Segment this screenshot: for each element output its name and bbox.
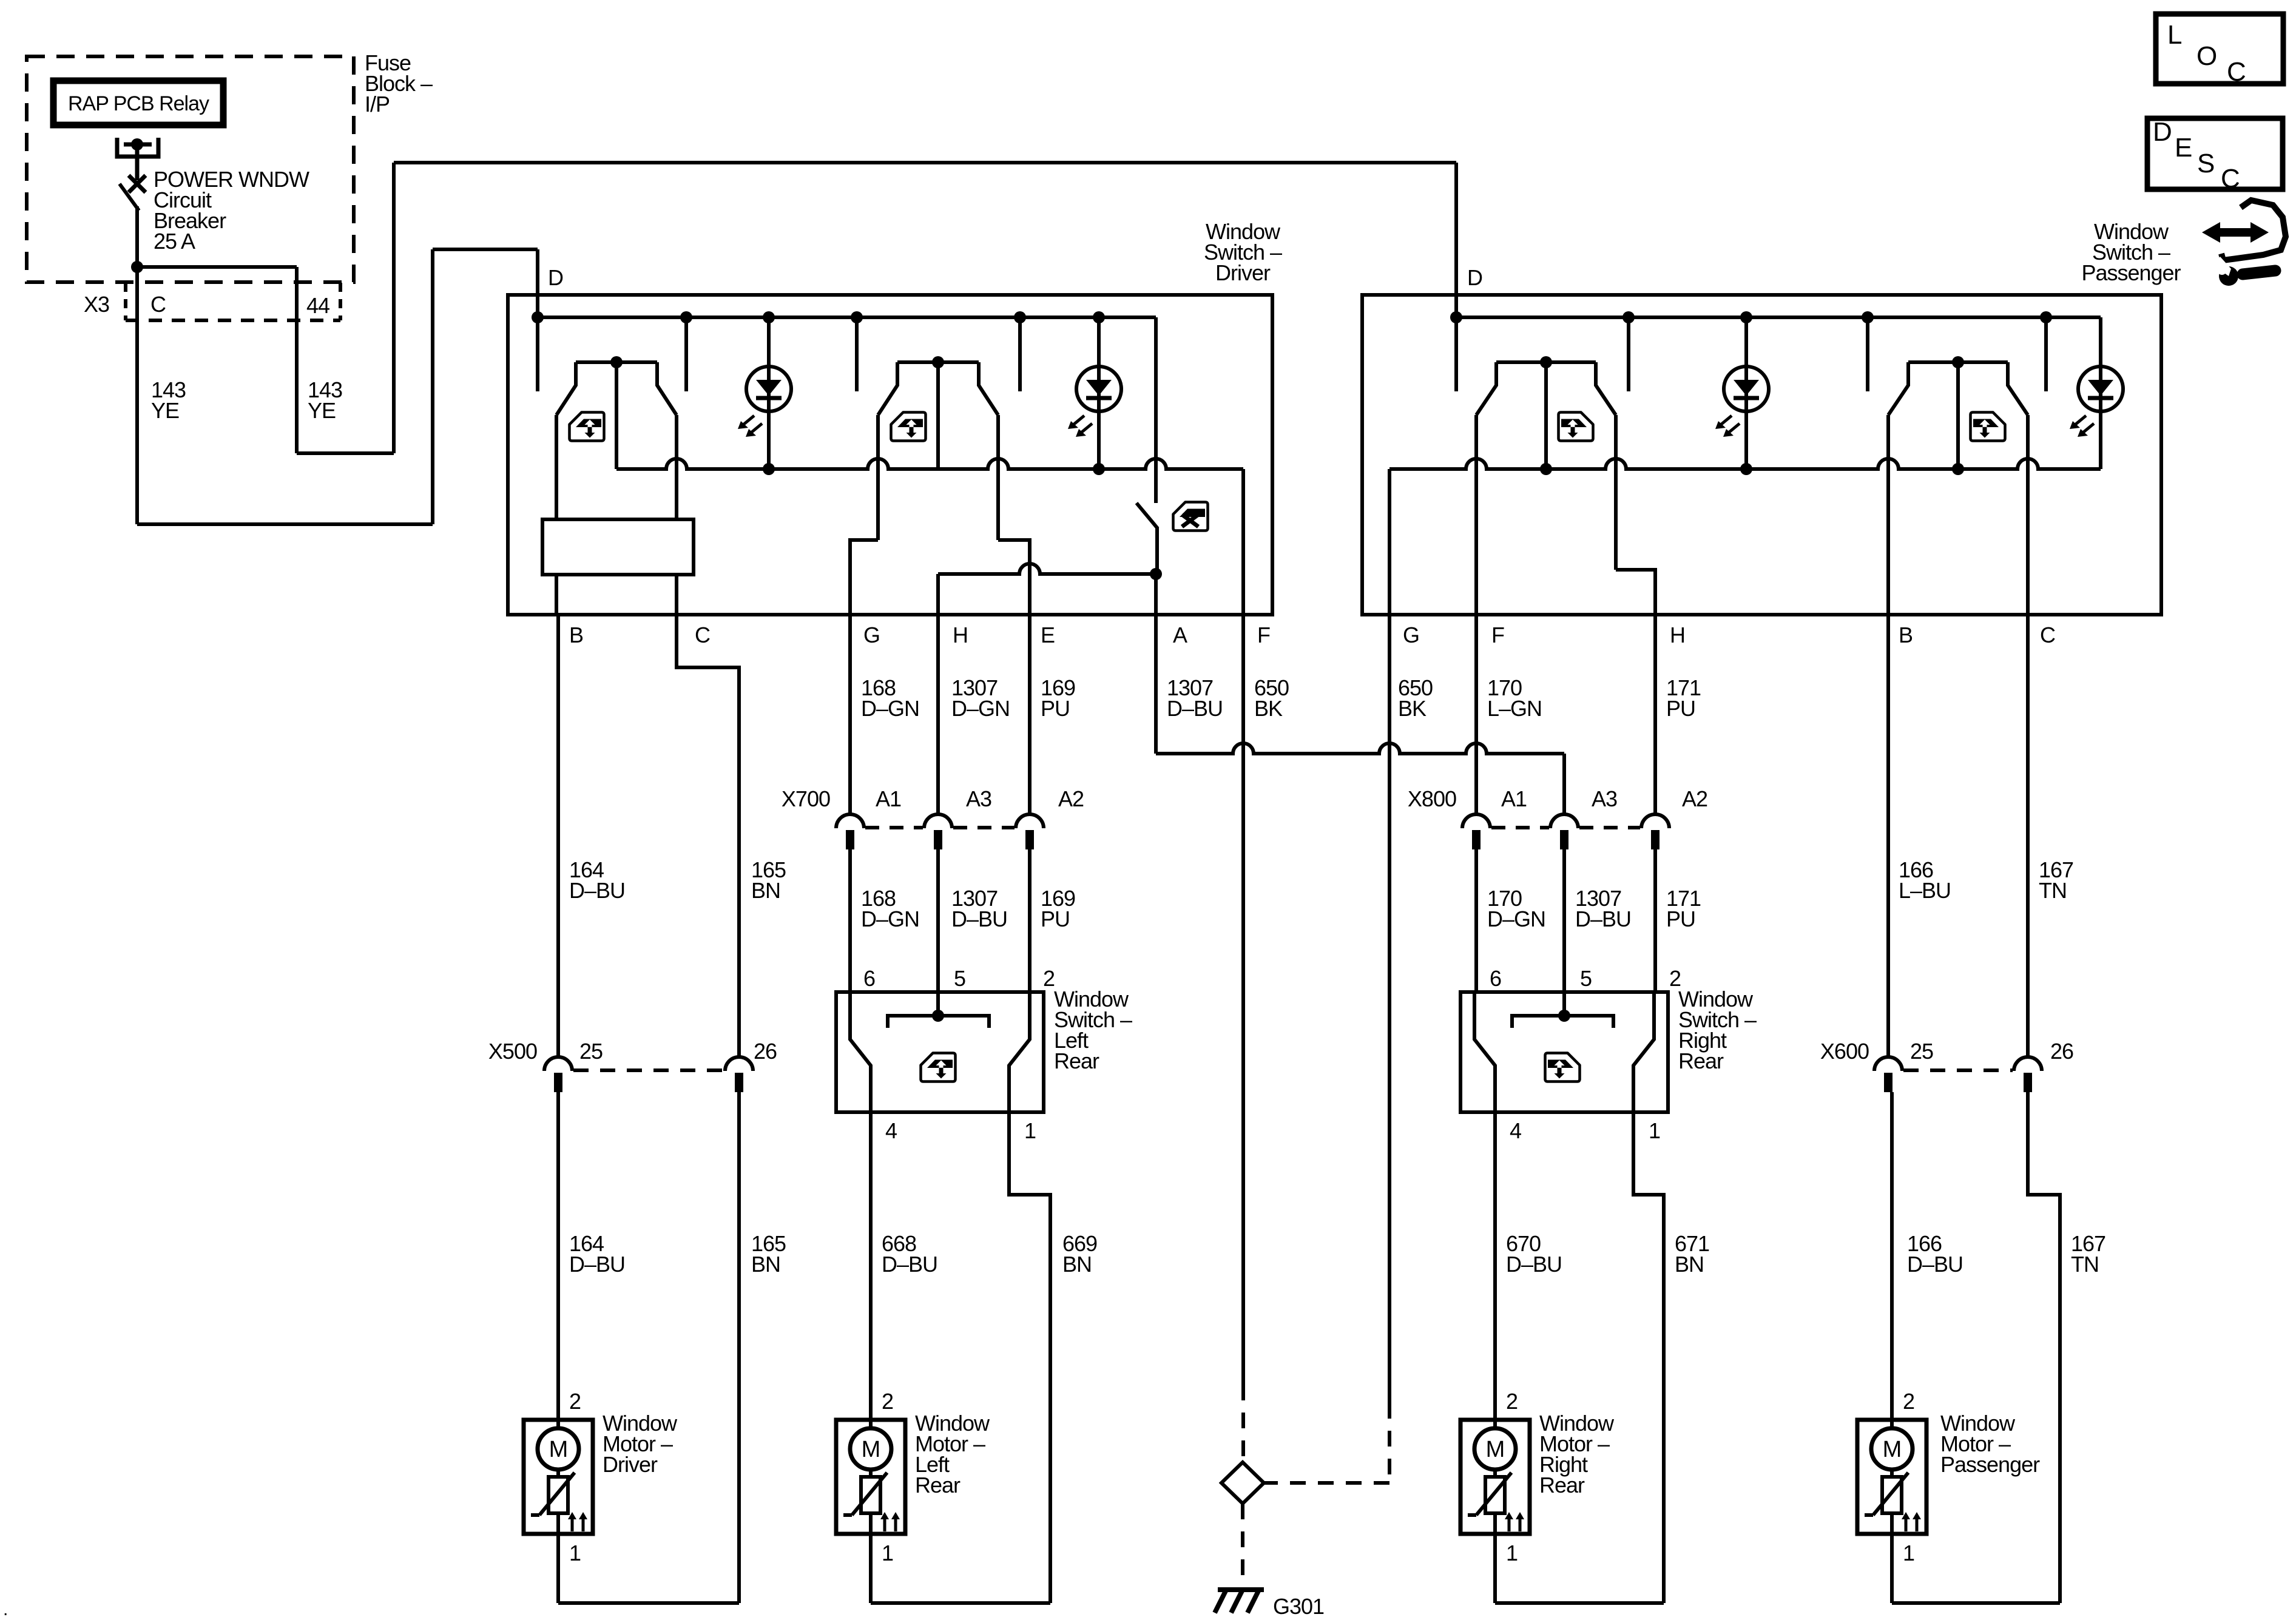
svg-text:I/P: I/P bbox=[365, 92, 390, 116]
svg-text:BK: BK bbox=[1254, 696, 1283, 721]
svg-text:PU: PU bbox=[1041, 906, 1070, 931]
svg-text:C: C bbox=[695, 623, 710, 647]
svg-text:D–BU: D–BU bbox=[1506, 1252, 1562, 1277]
svg-text:D–BU: D–BU bbox=[1575, 906, 1631, 931]
svg-text:4: 4 bbox=[1510, 1118, 1521, 1143]
svg-text:O: O bbox=[2196, 41, 2217, 71]
svg-text:5: 5 bbox=[1580, 966, 1592, 991]
svg-text:1: 1 bbox=[1506, 1541, 1518, 1565]
svg-text:1: 1 bbox=[1649, 1118, 1660, 1143]
svg-text:2: 2 bbox=[1506, 1389, 1518, 1414]
svg-text:Rear: Rear bbox=[1054, 1048, 1099, 1073]
svg-text:BN: BN bbox=[1675, 1252, 1704, 1277]
svg-text:M: M bbox=[1883, 1437, 1902, 1462]
svg-text:4: 4 bbox=[885, 1118, 897, 1143]
svg-text:B: B bbox=[1899, 623, 1913, 647]
svg-text:X600: X600 bbox=[1820, 1039, 1869, 1064]
svg-text:1: 1 bbox=[1903, 1541, 1914, 1565]
svg-text:6: 6 bbox=[1490, 966, 1501, 991]
svg-text:A3: A3 bbox=[1592, 786, 1617, 811]
svg-text:D–GN: D–GN bbox=[1487, 906, 1545, 931]
svg-text:A3: A3 bbox=[966, 786, 991, 811]
svg-text:Rear: Rear bbox=[1539, 1473, 1585, 1497]
svg-text:A1: A1 bbox=[1501, 786, 1527, 811]
svg-text:A: A bbox=[1173, 623, 1187, 647]
svg-text:M: M bbox=[862, 1437, 880, 1462]
svg-text:X500: X500 bbox=[488, 1039, 537, 1064]
svg-text:25 A: 25 A bbox=[154, 229, 195, 254]
svg-text:D: D bbox=[2153, 117, 2172, 147]
svg-text:D–BU: D–BU bbox=[569, 878, 625, 903]
svg-text:D–GN: D–GN bbox=[861, 696, 919, 721]
svg-text:G: G bbox=[1403, 623, 1419, 647]
svg-text:44: 44 bbox=[306, 293, 329, 318]
svg-text:PU: PU bbox=[1666, 696, 1695, 721]
svg-text:Passenger: Passenger bbox=[1940, 1452, 2040, 1477]
svg-text:X800: X800 bbox=[1408, 786, 1456, 811]
svg-text:E: E bbox=[2175, 133, 2192, 163]
svg-text:D–BU: D–BU bbox=[951, 906, 1007, 931]
svg-text:C: C bbox=[150, 292, 166, 317]
svg-text:2: 2 bbox=[1903, 1389, 1914, 1414]
svg-text:2: 2 bbox=[569, 1389, 581, 1414]
svg-text:E: E bbox=[1041, 623, 1055, 647]
svg-text:A2: A2 bbox=[1682, 786, 1707, 811]
svg-text:L–GN: L–GN bbox=[1487, 696, 1542, 721]
svg-text:BN: BN bbox=[751, 1252, 780, 1277]
svg-text:TN: TN bbox=[2039, 878, 2067, 903]
svg-text:X700: X700 bbox=[782, 786, 830, 811]
svg-text:TN: TN bbox=[2071, 1252, 2099, 1277]
svg-text:BK: BK bbox=[1398, 696, 1427, 721]
svg-text:C: C bbox=[2227, 57, 2246, 87]
svg-text:L: L bbox=[2167, 20, 2182, 50]
svg-text:F: F bbox=[1257, 623, 1270, 647]
svg-text:BN: BN bbox=[1062, 1252, 1092, 1277]
svg-text:D: D bbox=[1467, 265, 1482, 290]
svg-text:D–BU: D–BU bbox=[569, 1252, 625, 1277]
svg-text:26: 26 bbox=[754, 1039, 777, 1064]
svg-text:X3: X3 bbox=[84, 292, 109, 317]
svg-text:H: H bbox=[1670, 623, 1685, 647]
svg-text:C: C bbox=[2221, 164, 2240, 194]
svg-text:B: B bbox=[569, 623, 583, 647]
svg-text:Passenger: Passenger bbox=[2081, 260, 2181, 285]
svg-text:2: 2 bbox=[882, 1389, 893, 1414]
svg-text:1: 1 bbox=[1024, 1118, 1036, 1143]
svg-text:S: S bbox=[2197, 149, 2214, 178]
svg-text:BN: BN bbox=[751, 878, 780, 903]
svg-text:YE: YE bbox=[151, 398, 179, 423]
svg-text:2: 2 bbox=[1043, 966, 1055, 991]
svg-text:.: . bbox=[3, 1599, 7, 1617]
svg-text:M: M bbox=[1486, 1437, 1505, 1462]
svg-text:D–GN: D–GN bbox=[861, 906, 919, 931]
svg-text:M: M bbox=[549, 1437, 568, 1462]
svg-text:26: 26 bbox=[2050, 1039, 2073, 1064]
svg-text:Driver: Driver bbox=[1215, 260, 1271, 285]
svg-text:A1: A1 bbox=[876, 786, 901, 811]
svg-text:6: 6 bbox=[863, 966, 875, 991]
svg-text:YE: YE bbox=[308, 398, 336, 423]
svg-text:G301: G301 bbox=[1273, 1594, 1324, 1617]
svg-text:L–BU: L–BU bbox=[1899, 878, 1951, 903]
svg-text:F: F bbox=[1491, 623, 1504, 647]
svg-text:PU: PU bbox=[1041, 696, 1070, 721]
svg-text:RAP PCB Relay: RAP PCB Relay bbox=[68, 92, 209, 115]
svg-text:D–BU: D–BU bbox=[1167, 696, 1223, 721]
svg-text:D–BU: D–BU bbox=[1907, 1252, 1963, 1277]
svg-text:D: D bbox=[548, 265, 563, 290]
svg-text:5: 5 bbox=[954, 966, 965, 991]
svg-text:25: 25 bbox=[579, 1039, 603, 1064]
svg-text:D–GN: D–GN bbox=[951, 696, 1010, 721]
svg-text:C: C bbox=[2040, 623, 2055, 647]
svg-text:Driver: Driver bbox=[603, 1452, 658, 1477]
svg-text:1: 1 bbox=[569, 1541, 581, 1565]
svg-text:1: 1 bbox=[882, 1541, 893, 1565]
svg-text:25: 25 bbox=[1910, 1039, 1933, 1064]
svg-text:G: G bbox=[863, 623, 880, 647]
svg-text:PU: PU bbox=[1666, 906, 1695, 931]
svg-text:H: H bbox=[953, 623, 968, 647]
svg-text:Rear: Rear bbox=[1678, 1048, 1724, 1073]
svg-text:A2: A2 bbox=[1058, 786, 1084, 811]
svg-text:D–BU: D–BU bbox=[882, 1252, 937, 1277]
svg-text:Rear: Rear bbox=[915, 1473, 961, 1497]
